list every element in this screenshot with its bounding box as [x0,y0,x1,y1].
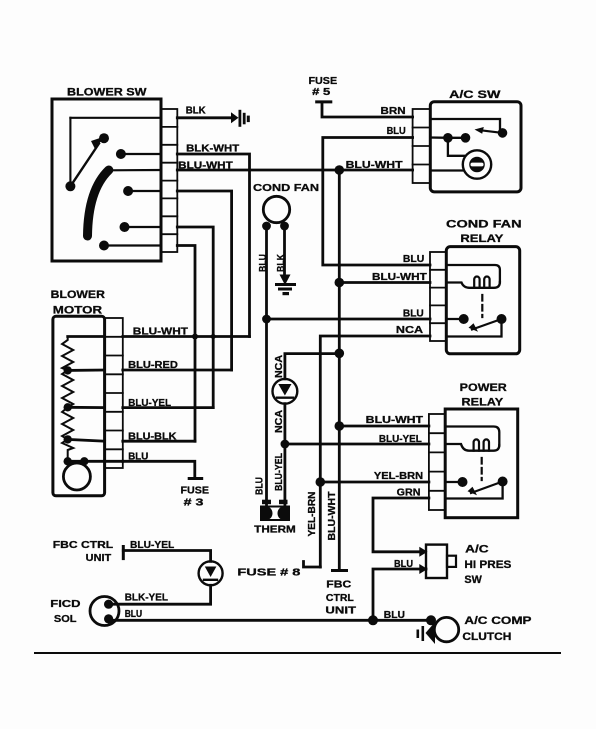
svg-text:BLK: BLK [276,253,287,272]
svg-text:GRN: GRN [397,487,421,498]
svg-text:A/C SW: A/C SW [449,89,501,101]
svg-text:BLU-BLK: BLU-BLK [128,432,177,443]
svg-text:BLOWER: BLOWER [51,289,105,301]
svg-text:NCA: NCA [274,410,285,433]
svg-text:BLK-WHT: BLK-WHT [186,143,239,154]
svg-text:A/C COMP: A/C COMP [464,615,531,627]
svg-text:BLU-YEL: BLU-YEL [379,434,422,445]
svg-text:SOL: SOL [54,613,77,625]
svg-text:COND FAN: COND FAN [446,219,522,231]
svg-text:A/C: A/C [465,544,489,556]
svg-text:NCA: NCA [274,355,285,378]
svg-text:BLU-WHT: BLU-WHT [178,160,233,171]
svg-text:BRN: BRN [381,106,406,117]
svg-text:BLOWER SW: BLOWER SW [67,87,147,99]
svg-text:BLU-WHT: BLU-WHT [327,492,338,541]
svg-text:BLK-YEL: BLK-YEL [125,593,168,604]
svg-text:BLK: BLK [186,105,207,116]
svg-text:FBC CTRL: FBC CTRL [53,539,114,551]
svg-text:FBC: FBC [326,580,351,591]
svg-text:BLU-WHT: BLU-WHT [346,160,403,171]
svg-text:BLU-WHT: BLU-WHT [133,327,188,338]
svg-text:BLU-WHT: BLU-WHT [372,272,427,283]
svg-text:BLU: BLU [255,477,266,495]
svg-text:HI PRES: HI PRES [464,559,511,571]
svg-text:UNIT: UNIT [325,605,356,616]
svg-text:# 5: # 5 [312,87,331,98]
svg-text:YEL-BRN: YEL-BRN [307,492,318,537]
svg-text:FUSE # 8: FUSE # 8 [237,567,301,578]
svg-text:POWER: POWER [460,382,507,394]
svg-text:BLU: BLU [387,126,406,137]
svg-text:FUSE: FUSE [309,76,338,87]
svg-text:RELAY: RELAY [460,233,504,245]
svg-text:THERM: THERM [254,524,296,535]
svg-text:CLUTCH: CLUTCH [462,631,511,643]
svg-text:NCA: NCA [396,325,423,336]
svg-text:BLU-RED: BLU-RED [128,360,178,371]
svg-text:CTRL: CTRL [326,593,354,604]
svg-text:FUSE: FUSE [181,486,210,497]
svg-text:BLU: BLU [394,559,413,570]
svg-text:FICD: FICD [50,598,81,610]
svg-text:YEL-BRN: YEL-BRN [374,471,423,482]
svg-text:BLU: BLU [125,609,142,620]
svg-text:BLU: BLU [384,610,405,621]
svg-text:BLU: BLU [258,254,269,272]
svg-text:BLU: BLU [128,452,148,463]
svg-text:BLU-WHT: BLU-WHT [366,415,423,426]
svg-text:RELAY: RELAY [462,397,504,409]
svg-text:# 3: # 3 [184,498,204,509]
svg-text:UNIT: UNIT [86,552,112,564]
svg-text:SW: SW [464,574,482,586]
svg-text:BLU-YEL: BLU-YEL [128,398,171,409]
svg-text:BLU: BLU [403,254,424,265]
svg-text:MOTOR: MOTOR [53,304,102,316]
svg-text:COND FAN: COND FAN [253,182,319,194]
svg-text:BLU-YEL: BLU-YEL [274,453,285,491]
svg-text:BLU: BLU [403,309,424,320]
svg-text:BLU-YEL: BLU-YEL [130,540,174,551]
